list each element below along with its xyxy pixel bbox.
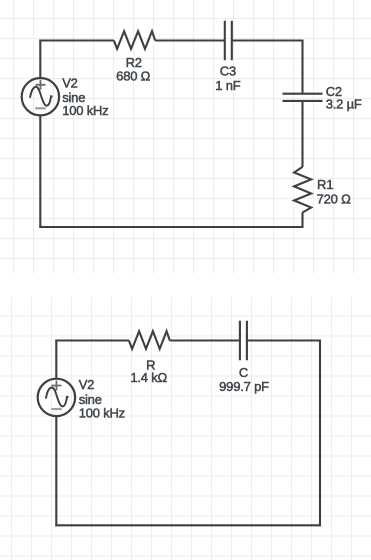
wire: bottom circuit, left side bottom segment (55, 416, 57, 526)
wire: bottom circuit, left side top segment (55, 340, 57, 379)
wire: top circuit, segment R1 down to bottom-right corner (39, 213, 303, 228)
voltage source V2 (bottom): plus sign (51, 381, 61, 391)
resistor R2 (114, 31, 155, 49)
voltage source V2 (top): minus sign (35, 107, 46, 109)
svg-text:1 nF: 1 nF (215, 78, 240, 93)
svg-text:720 Ω: 720 Ω (317, 191, 352, 206)
voltage source V2 (bottom): circle (38, 379, 75, 416)
svg-text:680 Ω: 680 Ω (116, 69, 151, 84)
voltage source V2 (top): plus sign (35, 80, 45, 90)
svg-text:100 kHz: 100 kHz (79, 405, 125, 420)
svg-text:999.7 pF: 999.7 pF (219, 379, 269, 394)
svg-text:1.4 kΩ: 1.4 kΩ (130, 370, 167, 385)
voltage source V2 (bottom): minus sign (51, 408, 62, 410)
wire: top circuit, left side bottom segment (source to bottom wire) (39, 115, 41, 228)
voltage source V2 (top): circle (22, 78, 59, 115)
wire: bottom circuit, top-left horizontal segment (55, 339, 129, 341)
svg-text:V2: V2 (62, 76, 78, 91)
svg-text:C3: C3 (220, 63, 236, 78)
svg-text:R1: R1 (317, 177, 333, 192)
wire: bottom circuit, C to top-right corner then down (248, 340, 320, 527)
svg-text:100 kHz: 100 kHz (62, 103, 108, 118)
svg-text:3.2 µF: 3.2 µF (326, 97, 362, 112)
resistor R1 (294, 167, 311, 213)
svg-text:V2: V2 (79, 377, 95, 392)
wire: top circuit, left side top segment (source to top wire) (39, 40, 41, 79)
wire: bottom circuit, bottom segment (55, 524, 321, 526)
voltage source V2 (top): sine wave (30, 87, 53, 106)
capacitor C2 (283, 94, 323, 101)
voltage source V2 (bottom): sine wave (46, 388, 69, 407)
wire: top circuit, segment between R2 and C3 (155, 39, 224, 41)
wire: bottom circuit, segment between R and C (170, 339, 239, 341)
svg-text:C: C (239, 365, 248, 380)
wire: top circuit, top-left horizontal segment (39, 39, 114, 41)
wire: top circuit, segment C2 down to R1 (301, 102, 303, 167)
capacitor C3 (225, 21, 232, 60)
capacitor C (240, 321, 247, 360)
resistor R (129, 331, 170, 349)
wire: top circuit, segment C3 to top-right corner then down to C2 (233, 40, 303, 93)
